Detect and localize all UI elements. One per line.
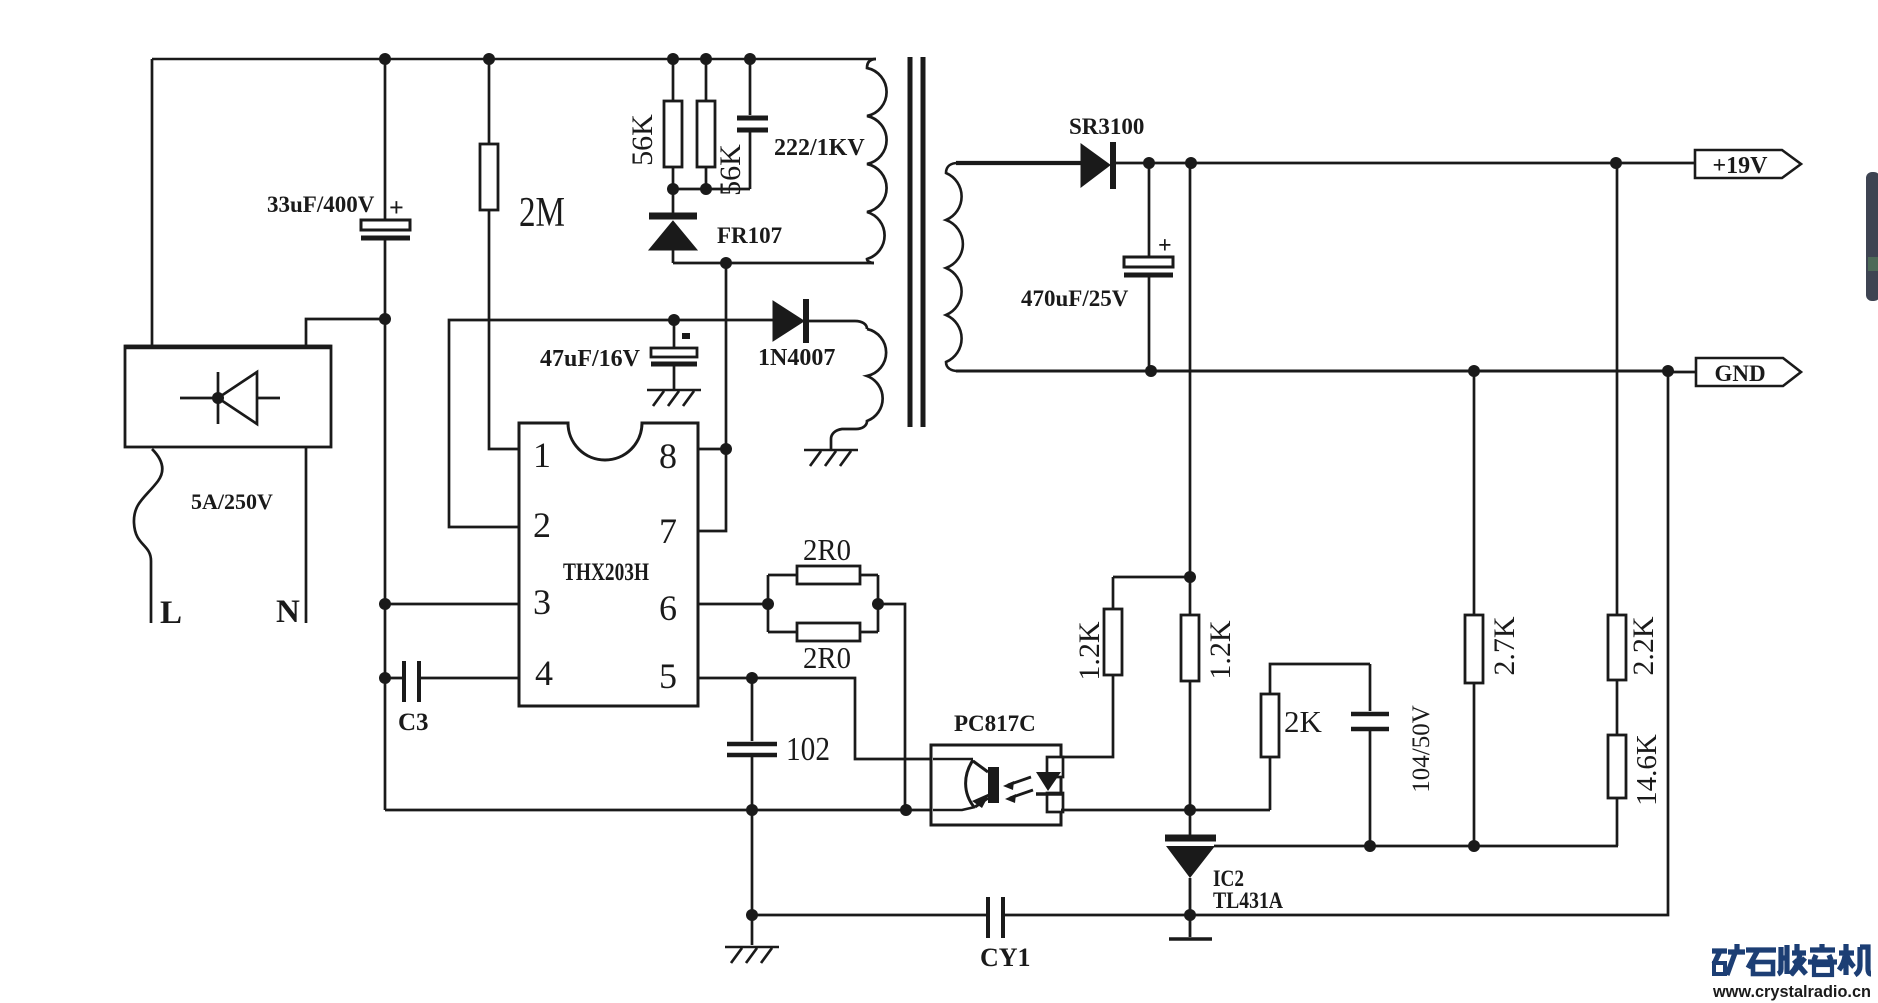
scrollbar fragment right edge <box>1866 172 1878 301</box>
wire: x=752 to bottom ground <box>751 810 754 945</box>
capacitor CY1 <box>752 897 1190 972</box>
optocoupler U2 PC817C <box>931 711 1063 825</box>
svg-text:TL431A: TL431A <box>1213 888 1283 913</box>
transformer T1 secondary winding <box>946 163 963 371</box>
svg-text:7: 7 <box>659 511 677 551</box>
svg-text:www.crystalradio.cn: www.crystalradio.cn <box>1712 982 1871 1001</box>
svg-text:1N4007: 1N4007 <box>758 345 835 371</box>
svg-text:1: 1 <box>533 435 551 475</box>
capacitor 104/50V <box>1351 664 1435 846</box>
resistor 2K <box>1261 664 1370 810</box>
svg-text:102: 102 <box>786 731 830 768</box>
wire: +19V rail y=163 <box>1116 162 1695 165</box>
wire: 2R0 to bottom rail <box>878 604 905 810</box>
fuse 5A/250V squiggle <box>134 449 162 623</box>
ground: below 47uF <box>647 390 701 406</box>
svg-text:5A/250V: 5A/250V <box>191 489 273 514</box>
svg-text:CY1: CY1 <box>980 943 1031 972</box>
ground: bottom center <box>725 947 779 963</box>
svg-text:N: N <box>276 594 300 630</box>
svg-text:47uF/16V: 47uF/16V <box>540 346 641 372</box>
svg-text:4: 4 <box>535 653 553 693</box>
capacitor 222/1KV <box>737 59 865 189</box>
resistor 2M <box>480 59 565 449</box>
svg-text:5: 5 <box>659 656 677 696</box>
wire: snubber bottom link y=189 <box>673 188 750 191</box>
svg-text:2.7K: 2.7K <box>1488 616 1521 676</box>
wire: pin6 stub <box>698 603 768 606</box>
wire: feedback rail x=1190 from +19V <box>1189 163 1192 615</box>
diode SR3100 <box>1069 114 1144 189</box>
wire: TL431 ref line y=846 <box>1214 845 1618 848</box>
capacitor C3 <box>385 661 519 736</box>
node N <box>276 594 300 630</box>
transformer T1 primary winding <box>867 59 887 263</box>
wire: bulk rail x=385 below C1 down to bottom wire <box>384 240 387 810</box>
svg-text:2M: 2M <box>519 190 565 236</box>
wire: link y=577 <box>1113 576 1190 579</box>
capacitor C2 47uF/16V <box>540 320 697 390</box>
svg-text:3: 3 <box>533 582 551 622</box>
svg-text:+: + <box>389 193 404 222</box>
wire: bridge output stub to bulk rail <box>306 319 385 346</box>
wire: N lead <box>305 447 308 623</box>
svg-text:222/1KV: 222/1KV <box>774 135 865 161</box>
wire: right rail down and bottom return <box>1190 371 1668 915</box>
resistor 1.2K (right of pair) <box>1181 615 1237 836</box>
svg-text:+19V: +19V <box>1712 153 1768 179</box>
wire: secondary top to diode (thick) <box>956 161 1081 165</box>
ground: below aux winding <box>804 450 858 466</box>
svg-text:FR107: FR107 <box>717 223 782 248</box>
diode 1N4007 <box>758 299 867 371</box>
svg-text:33uF/400V: 33uF/400V <box>267 192 375 217</box>
svg-text:2R0: 2R0 <box>803 532 851 567</box>
resistor 1.2K (left of pair) <box>1061 577 1122 757</box>
svg-text:SR3100: SR3100 <box>1069 114 1144 139</box>
IC U1 THX203H body <box>519 423 698 706</box>
svg-text:C3: C3 <box>398 709 429 736</box>
svg-text:GND: GND <box>1714 361 1765 386</box>
resistor 2.2K <box>1608 163 1660 735</box>
svg-text:L: L <box>160 595 182 631</box>
wire: bottom primary-side rail y=810 <box>385 809 930 812</box>
svg-text:1.2K: 1.2K <box>1073 621 1106 681</box>
svg-text:1.2K: 1.2K <box>1204 620 1237 680</box>
wire: pin3 to bulk rail <box>385 603 519 606</box>
resistor 14.6K <box>1608 734 1663 846</box>
svg-text:2.2K: 2.2K <box>1627 616 1660 676</box>
svg-text:104/50V: 104/50V <box>1408 705 1435 793</box>
svg-text:2R0: 2R0 <box>803 640 851 675</box>
svg-text:PC817C: PC817C <box>954 711 1036 736</box>
svg-text:2: 2 <box>533 505 551 545</box>
svg-text:14.6K: 14.6K <box>1631 734 1663 806</box>
watermark url <box>1712 982 1871 1001</box>
wire: GND flag stub <box>1668 371 1696 374</box>
node flag GND <box>1696 358 1801 386</box>
resistor R 56K (left) <box>626 59 682 189</box>
diode FR107 <box>649 189 782 263</box>
IC2 TL431A shunt regulator <box>1165 838 1283 939</box>
wire: bulk rail x=385 (top lead of C1) <box>384 59 387 220</box>
capacitor C1 33uF/400V <box>267 192 410 238</box>
transformer T1 aux winding <box>831 329 886 449</box>
wire: pin5 to opto <box>698 678 930 759</box>
capacitor C4 470uF/25V <box>1021 163 1173 371</box>
svg-text:56K: 56K <box>626 114 659 166</box>
svg-text:THX203H: THX203H <box>563 559 649 586</box>
resistor 2R0 pair <box>768 532 878 675</box>
svg-text:+: + <box>1158 233 1172 259</box>
watermark logo <box>1712 944 1871 975</box>
resistor R 56K (right) <box>697 59 747 196</box>
wire: secondary bottom / GND rail y=371 <box>956 370 1668 373</box>
wire: opto cathode to TL431 cathode node <box>1061 809 1270 812</box>
capacitor 102 <box>727 678 830 810</box>
transformer core <box>910 57 923 427</box>
resistor 2.7K <box>1465 371 1521 846</box>
wire: drain drop to pins 7/8 <box>698 263 726 531</box>
wire: primary bottom / drain wire y=263 <box>673 262 874 265</box>
svg-text:470uF/25V: 470uF/25V <box>1021 286 1129 311</box>
svg-text:2K: 2K <box>1284 704 1323 739</box>
node flag +19V <box>1695 150 1801 179</box>
svg-text:6: 6 <box>659 588 677 628</box>
wire: pin2 Vcc loop <box>449 320 773 527</box>
node L <box>160 595 182 631</box>
svg-text:8: 8 <box>659 436 677 476</box>
bridge rectifier module <box>125 346 331 514</box>
wire: left AC drop to bridge <box>151 59 154 346</box>
wire: top HV rail <box>152 58 876 61</box>
